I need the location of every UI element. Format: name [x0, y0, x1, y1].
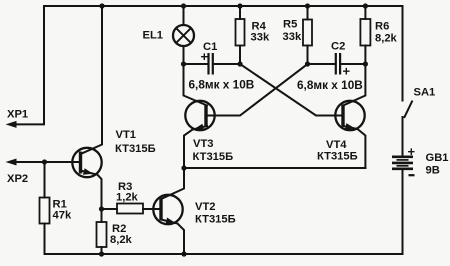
svg-text:8,2k: 8,2k [375, 33, 398, 45]
svg-text:1,2k: 1,2k [116, 191, 139, 203]
svg-text:VT2: VT2 [195, 201, 216, 213]
svg-text:6,8мк x 10В: 6,8мк x 10В [297, 78, 363, 92]
svg-text:+: + [343, 64, 351, 79]
svg-text:GB1: GB1 [426, 152, 449, 164]
svg-text:33k: 33k [251, 32, 270, 44]
svg-text:VT1: VT1 [116, 129, 137, 141]
svg-text:КТ315Б: КТ315Б [195, 214, 236, 226]
svg-text:9В: 9В [426, 164, 440, 176]
svg-text:8,2k: 8,2k [110, 234, 133, 246]
svg-text:R5: R5 [283, 19, 297, 31]
svg-text:SA1: SA1 [414, 86, 436, 98]
svg-text:EL1: EL1 [143, 30, 164, 42]
svg-text:R4: R4 [252, 21, 267, 33]
svg-text:XP1: XP1 [7, 109, 28, 121]
svg-text:VT3: VT3 [193, 138, 214, 150]
svg-text:33k: 33k [283, 31, 302, 43]
svg-text:КТ315Б: КТ315Б [317, 151, 358, 163]
svg-text:+: + [408, 144, 416, 159]
svg-text:6,8мк x 10В: 6,8мк x 10В [189, 77, 255, 91]
svg-text:КТ315Б: КТ315Б [193, 151, 234, 163]
svg-text:+: + [201, 49, 209, 64]
svg-text:XP2: XP2 [7, 173, 28, 185]
svg-text:47k: 47k [53, 210, 72, 222]
svg-text:R6: R6 [375, 21, 389, 33]
svg-text:VT4: VT4 [326, 139, 347, 151]
svg-text:КТ315Б: КТ315Б [115, 143, 156, 155]
svg-text:C2: C2 [331, 41, 345, 53]
